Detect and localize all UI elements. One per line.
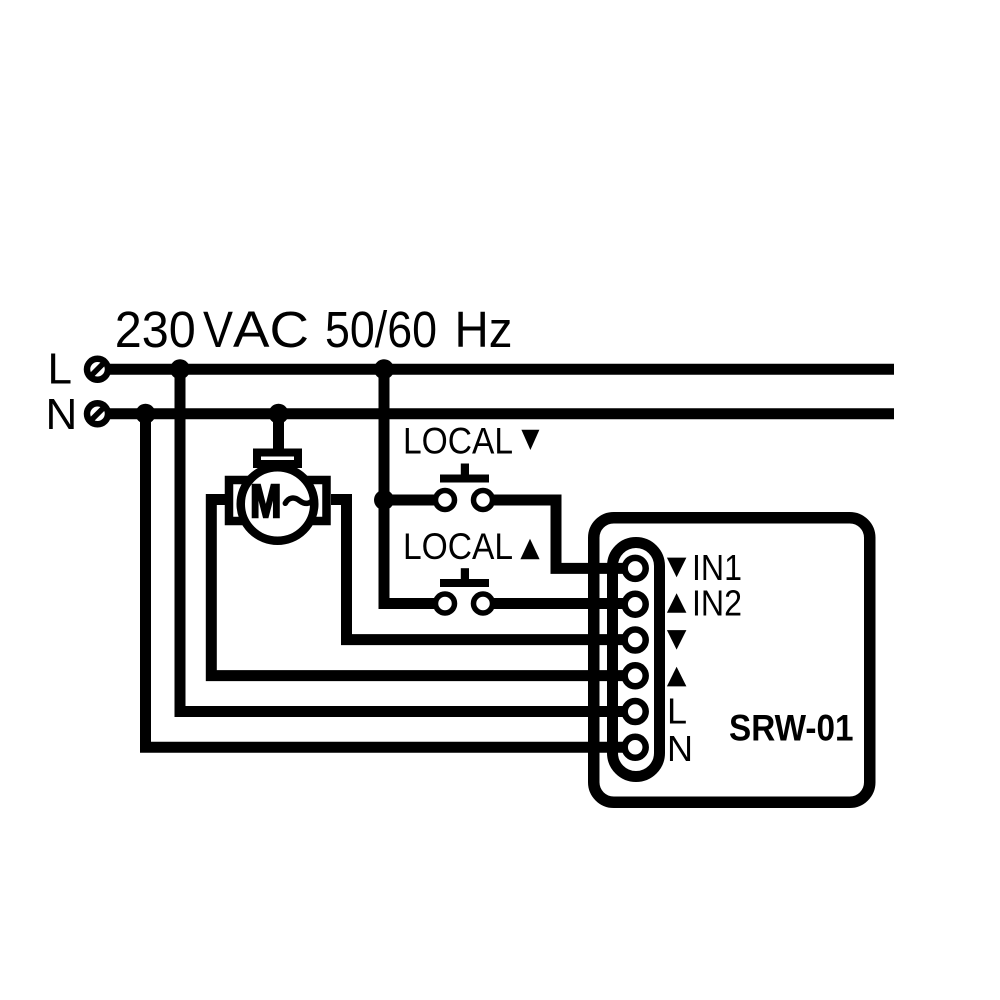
junction dot N motor bbox=[269, 404, 289, 424]
svg-text:SRW-01: SRW-01 bbox=[729, 708, 854, 749]
triangle LOCAL up bbox=[520, 539, 539, 559]
svg-text:L: L bbox=[48, 345, 72, 394]
switch S1 LOCAL down bbox=[436, 464, 493, 510]
svg-text:N: N bbox=[46, 390, 78, 439]
terminal 4 bbox=[625, 665, 646, 686]
triangle T3 down bbox=[667, 630, 687, 650]
terminal strip bbox=[613, 543, 660, 777]
terminal N screw bbox=[87, 403, 108, 424]
svg-text:230: 230 bbox=[115, 301, 196, 358]
wire N stub to motor bbox=[273, 414, 284, 452]
svg-text:50/60: 50/60 bbox=[325, 301, 437, 358]
svg-text:N: N bbox=[667, 728, 693, 769]
terminal L screw bbox=[87, 359, 108, 380]
terminal 1 bbox=[625, 558, 646, 579]
svg-text:V: V bbox=[203, 301, 233, 358]
triangle IN1 down bbox=[667, 558, 687, 578]
wire L drop to terminal 5 bbox=[180, 369, 632, 711]
triangle IN2 up bbox=[667, 593, 687, 613]
junction dot N1 bbox=[136, 404, 156, 424]
svg-text:LOCAL: LOCAL bbox=[403, 421, 513, 462]
svg-text:IN2: IN2 bbox=[692, 583, 742, 624]
wire L line bbox=[108, 364, 894, 375]
triangle T4 up bbox=[667, 667, 687, 687]
module SRW-01 box bbox=[594, 518, 870, 803]
wire N drop to terminal 6 bbox=[146, 414, 633, 748]
terminal 3 bbox=[625, 630, 646, 651]
svg-text:Hz: Hz bbox=[455, 301, 513, 358]
wire motor left to terminal 4 bbox=[211, 500, 632, 676]
terminal 2 bbox=[625, 594, 646, 615]
svg-text:M: M bbox=[250, 475, 281, 527]
triangle LOCAL down bbox=[521, 430, 539, 450]
switch S2 LOCAL up bbox=[436, 568, 493, 613]
wire motor right to terminal 3 bbox=[331, 500, 632, 640]
terminal 5 bbox=[625, 701, 646, 722]
wire L drop to switches bbox=[384, 369, 434, 603]
wire switch1 left bbox=[384, 495, 436, 506]
wire switch2 right to terminal 2 bbox=[492, 598, 632, 609]
svg-text:AC: AC bbox=[233, 301, 309, 358]
motor M1 bbox=[229, 453, 327, 541]
svg-text:L: L bbox=[667, 691, 687, 732]
junction dot L1 bbox=[170, 359, 190, 379]
svg-text:LOCAL: LOCAL bbox=[403, 526, 513, 567]
terminal 6 bbox=[625, 737, 646, 758]
junction dot switch1 bbox=[374, 490, 394, 510]
junction dot L2 bbox=[374, 359, 394, 379]
wire N line bbox=[108, 408, 894, 419]
wire switch1 right to terminal 1 bbox=[492, 500, 632, 568]
